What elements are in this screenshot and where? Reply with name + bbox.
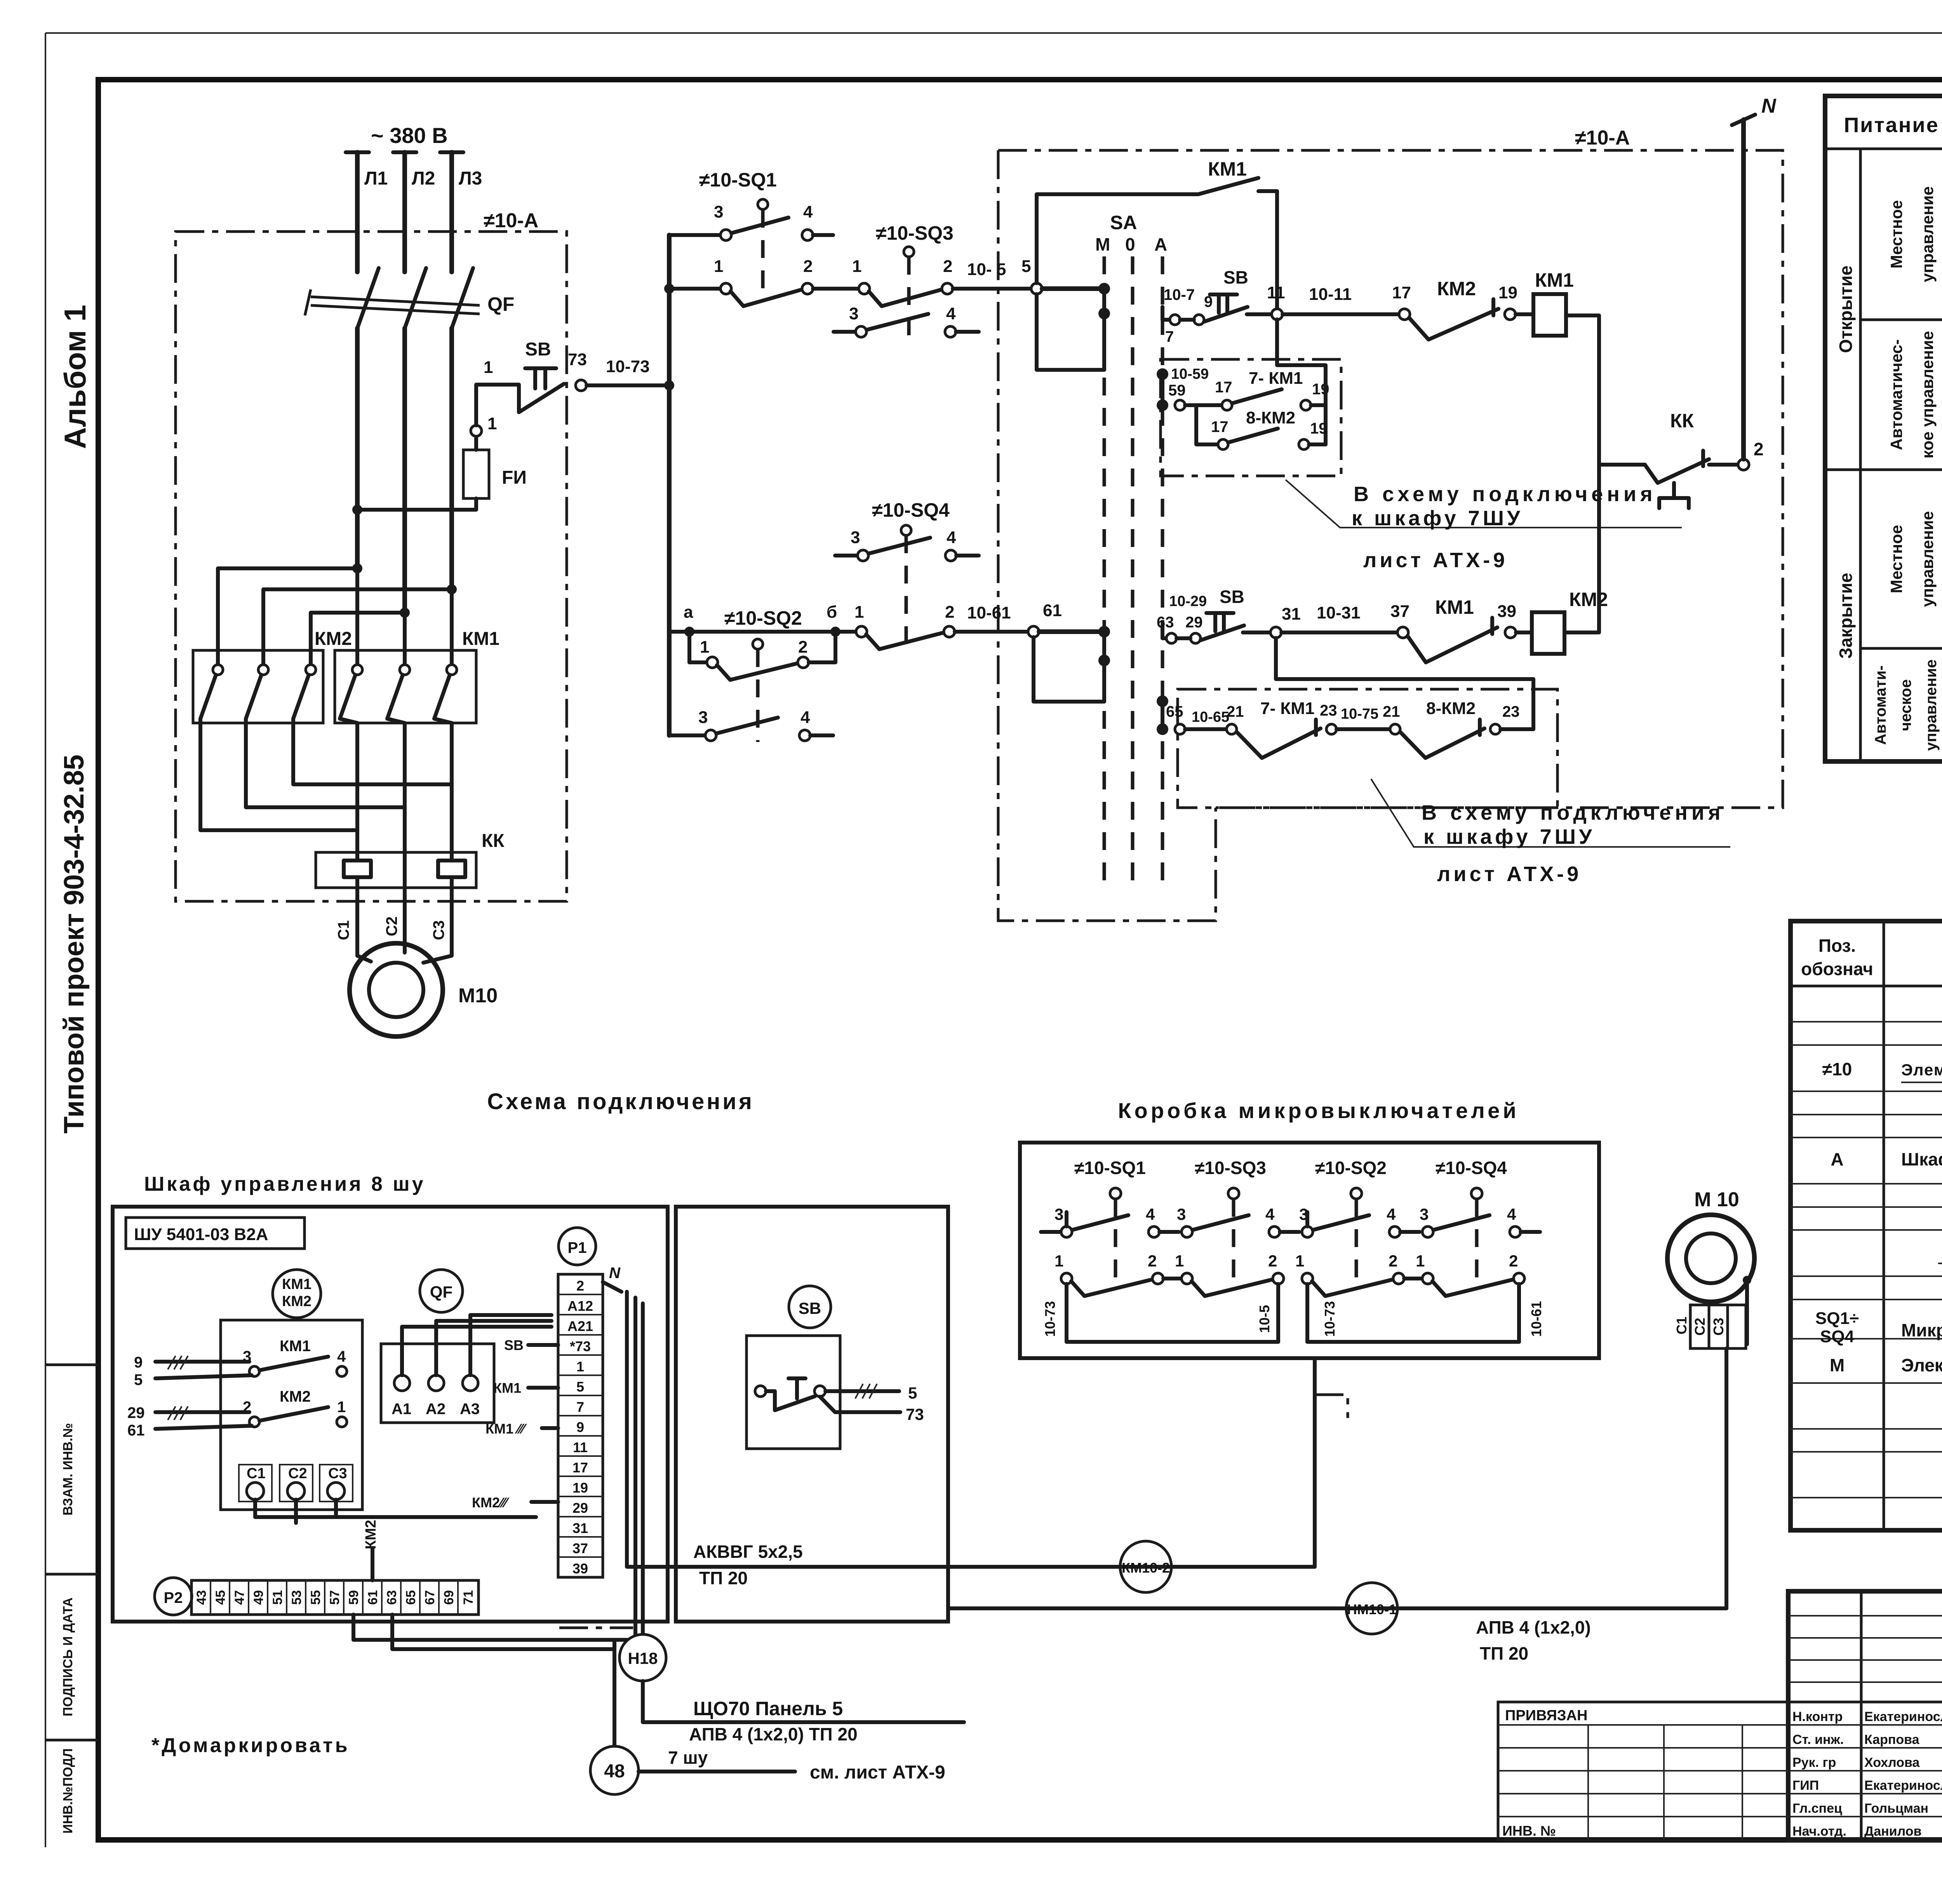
svg-text:SB: SB — [525, 339, 551, 360]
node 11 — [1272, 309, 1282, 320]
SQ3 stub row 3-4 — [834, 330, 856, 334]
wire to node 31 — [1243, 631, 1270, 634]
SQ4 stem dashed — [905, 535, 908, 645]
svg-text:55: 55 — [308, 1590, 323, 1605]
contact block box — [221, 1320, 362, 1510]
svg-text:к шкафу 7ШУ: к шкафу 7ШУ — [1423, 825, 1595, 848]
terminal 59 — [1175, 400, 1185, 410]
svg-text:59: 59 — [1168, 382, 1186, 399]
motor M10 inner — [369, 963, 423, 1017]
KK heater C — [438, 852, 465, 888]
terminal 65 — [1175, 724, 1185, 734]
svg-text:21: 21 — [1383, 703, 1400, 720]
SQ2 stem dashed — [756, 649, 760, 742]
left control bus — [667, 235, 672, 735]
contact 63 — [1166, 633, 1176, 643]
svg-text:10-5: 10-5 — [1256, 1305, 1272, 1333]
svg-text:10-29: 10-29 — [1169, 593, 1207, 610]
cable NM10-1 — [948, 1476, 1726, 1608]
SQ4 stub 3 — [835, 554, 858, 557]
SQ3 contact 3 — [856, 326, 867, 337]
P2 label circle — [155, 1578, 192, 1615]
svg-text:КМ1: КМ1 — [1435, 596, 1474, 618]
svg-text:3: 3 — [1177, 1205, 1186, 1223]
svg-text:17: 17 — [1215, 379, 1232, 396]
SQ1 blade 3-4 — [731, 218, 788, 233]
svg-text:QF: QF — [430, 1283, 452, 1301]
box frame — [1020, 1143, 1599, 1358]
svg-text:*73: *73 — [570, 1338, 591, 1354]
svg-text:≠10-SQ2: ≠10-SQ2 — [1315, 1158, 1387, 1178]
SB label circle — [789, 1286, 831, 1328]
48 line — [639, 1770, 795, 1773]
contact 39 — [1505, 627, 1516, 638]
SQ2 contact 2 — [798, 657, 809, 668]
circle H18 — [619, 1634, 666, 1681]
svg-text:17: 17 — [1392, 283, 1411, 302]
svg-text:Типовой проект 903-4-32.85: Типовой проект 903-4-32.85 — [59, 754, 90, 1134]
svg-text:5: 5 — [1021, 257, 1031, 276]
svg-text:4: 4 — [1387, 1205, 1396, 1223]
svg-text:31: 31 — [1282, 604, 1301, 624]
leader line to note — [1286, 480, 1682, 528]
svg-text:47: 47 — [232, 1590, 247, 1605]
contact 8-KM2 blade — [1228, 429, 1278, 442]
dashdot crossing mark — [559, 1627, 633, 1629]
svg-text:0: 0 — [1125, 234, 1135, 254]
svg-text:3: 3 — [698, 708, 708, 727]
svg-text:М 10: М 10 — [1694, 1188, 1739, 1211]
SQ2 stub row 3-4 — [669, 733, 705, 737]
svg-text:N: N — [609, 1265, 621, 1282]
svg-text:N: N — [1761, 95, 1777, 117]
svg-text:48: 48 — [604, 1761, 625, 1782]
svg-text:~ 380 B: ~ 380 B — [371, 123, 448, 148]
svg-text:НМ10-1: НМ10-1 — [1347, 1601, 1397, 1617]
svg-text:11: 11 — [573, 1439, 588, 1455]
svg-text:10- 5: 10- 5 — [967, 260, 1006, 279]
node dot 10-59 upper — [1157, 368, 1168, 380]
motor inner — [1686, 1233, 1736, 1283]
svg-text:10-65: 10-65 — [1192, 709, 1229, 725]
contact 9 — [1194, 315, 1204, 325]
selector loop below 61 — [1034, 637, 1104, 702]
svg-text:Местное: Местное — [1887, 200, 1905, 268]
P1 label circle — [559, 1228, 596, 1265]
svg-text:С3: С3 — [430, 920, 447, 940]
SQ4 blade 1-2 — [866, 633, 943, 649]
contactor KM2 box — [193, 650, 323, 723]
wire fuse to SB — [476, 385, 519, 425]
dots on M pole row2 — [1098, 626, 1110, 638]
SB wires out 5 / 73 — [820, 1391, 900, 1412]
wire coil KM2 to bus up — [1564, 465, 1599, 632]
svg-text:см. лист АТХ-9: см. лист АТХ-9 — [810, 1762, 945, 1783]
svg-text:10-11: 10-11 — [1309, 285, 1352, 304]
svg-text:63: 63 — [1157, 614, 1174, 631]
svg-text:61: 61 — [365, 1590, 380, 1605]
cabinet box left part — [113, 1207, 668, 1622]
svg-text:Ст. инж.: Ст. инж. — [1792, 1732, 1844, 1747]
breaker QF blade A — [357, 268, 379, 328]
jog wire A to KM2 — [218, 568, 357, 665]
terminal 73 — [576, 380, 586, 391]
svg-text:2: 2 — [1268, 1252, 1277, 1270]
cabinet box right part — [676, 1207, 948, 1622]
node dot C — [400, 608, 410, 618]
svg-text:Местное: Местное — [1887, 525, 1905, 593]
contact 7-KM1 NC blade — [1237, 719, 1321, 758]
svg-text:Нач.отд.: Нач.отд. — [1792, 1824, 1846, 1839]
svg-text:А3: А3 — [460, 1401, 480, 1418]
svg-text:61: 61 — [1043, 601, 1062, 620]
QF feeders to P1 — [402, 1315, 552, 1375]
svg-text:1: 1 — [852, 257, 861, 276]
KM2 pole 2 — [258, 665, 268, 675]
SQ1 blade 1-2 — [731, 290, 801, 306]
svg-text:лист АТХ-9: лист АТХ-9 — [1363, 549, 1508, 572]
svg-text:FИ: FИ — [502, 467, 527, 488]
svg-text:17: 17 — [573, 1460, 588, 1475]
neutral N line — [1741, 120, 1746, 459]
node dot 59 — [1157, 399, 1168, 411]
phase wire B mid — [402, 328, 407, 613]
svg-text:Н.контр: Н.контр — [1792, 1709, 1843, 1724]
svg-text:19: 19 — [1310, 420, 1328, 437]
SB button symbol — [755, 1386, 766, 1397]
SQ1 pivot — [758, 199, 768, 209]
svg-text:73: 73 — [906, 1405, 924, 1423]
svg-text:19: 19 — [573, 1480, 588, 1496]
svg-text:КМ1: КМ1 — [462, 629, 499, 649]
SQ4 contact 3 — [858, 550, 868, 561]
svg-text:2: 2 — [1148, 1252, 1157, 1270]
svg-text:Екатеринославская: Екатеринославская — [1864, 1709, 1942, 1724]
SQ3 stub 4 — [956, 330, 979, 334]
contact 7 — [1170, 315, 1180, 325]
svg-text:С3: С3 — [328, 1465, 347, 1482]
svg-text:КМ1: КМ1 — [1208, 158, 1247, 180]
svg-text:ШУ 5401-03 В2А: ШУ 5401-03 В2А — [134, 1225, 268, 1244]
wire SQ1.2 to SQ3.1 — [813, 287, 859, 291]
node dot motor — [1743, 1276, 1751, 1284]
QF label circle — [420, 1270, 463, 1312]
svg-text:ИНВ.№ПОДЛ: ИНВ.№ПОДЛ — [61, 1748, 75, 1833]
svg-text:КМ1: КМ1 — [280, 1338, 311, 1355]
phase wire B through KK — [403, 852, 407, 888]
svg-text:SB: SB — [1220, 587, 1244, 607]
KM1 NC contact row2 — [1408, 618, 1497, 662]
node 31 — [1270, 627, 1281, 638]
svg-text:8-КМ2: 8-КМ2 — [1246, 408, 1295, 427]
svg-text:SQ1÷: SQ1÷ — [1815, 1309, 1859, 1328]
wire 23b to corner — [1500, 727, 1533, 731]
terminal 21 — [1227, 724, 1237, 734]
svg-text:≠10-SQ2: ≠10-SQ2 — [724, 607, 802, 629]
terminal 17 row2 — [1218, 439, 1228, 449]
svg-text:КМ2: КМ2 — [363, 1520, 379, 1549]
svg-text:В схему подключения: В схему подключения — [1354, 483, 1657, 506]
breaker QF blade B — [405, 268, 426, 328]
terminal 23 — [1326, 724, 1336, 734]
svg-text:Шкаф управления ШУ5402-03В2А: Шкаф управления ШУ5402-03В2А — [1901, 1149, 1942, 1169]
KM1 holding branch right leg — [1258, 191, 1277, 309]
svg-text:2: 2 — [1389, 1252, 1397, 1270]
svg-text:С2: С2 — [1692, 1318, 1708, 1336]
svg-text:КМ1 ⁄⁄⁄: КМ1 ⁄⁄⁄ — [486, 1421, 527, 1437]
svg-text:QF: QF — [487, 293, 514, 315]
wire node5 to SA — [1042, 286, 1104, 291]
wire 59 to 17 — [1185, 403, 1222, 407]
svg-text:Электродвигатель 4АА56В4У3: Электродвигатель 4АА56В4У3 — [1901, 1355, 1942, 1375]
SQ1 switch — [1110, 1188, 1121, 1199]
selector loop below node5 — [1037, 294, 1104, 370]
svg-text:управление: управление — [1918, 511, 1937, 607]
SQ2 stub 4 — [810, 733, 833, 737]
svg-text:А: А — [1154, 234, 1167, 254]
wire 10-5 — [953, 287, 1031, 291]
node dot row1 — [664, 284, 674, 294]
svg-text:53: 53 — [289, 1590, 304, 1605]
type label box — [126, 1218, 305, 1249]
svg-text:М: М — [1095, 234, 1110, 254]
motor leads — [357, 888, 452, 963]
svg-text:КМ10-2: КМ10-2 — [1122, 1560, 1170, 1576]
node 5 — [1031, 283, 1042, 294]
svg-text:С1: С1 — [335, 920, 352, 940]
svg-text:КМ2: КМ2 — [1569, 589, 1608, 610]
row1 wire bus to SQ1.1 — [669, 287, 720, 291]
SQ2 bypass left leg — [689, 632, 707, 662]
svg-text:2: 2 — [943, 257, 952, 276]
svg-text:Хохлова: Хохлова — [1864, 1755, 1920, 1770]
wire 10-31 — [1281, 631, 1397, 634]
svg-text:Л1: Л1 — [364, 168, 388, 189]
svg-text:≠10-SQ3: ≠10-SQ3 — [1195, 1158, 1266, 1178]
contact 7-KM1 blade — [1232, 389, 1282, 403]
P2 terminal strip — [191, 1580, 479, 1615]
SQ3 blade 1-2 — [869, 290, 941, 306]
svg-text:11: 11 — [1267, 283, 1285, 302]
SQ4 pivot — [901, 525, 911, 535]
dash-dot cabinet A boundary top/right/bottom — [998, 150, 1783, 921]
KM10-2 marker circle — [1120, 1541, 1171, 1592]
coil KM1 — [1533, 294, 1566, 336]
SQ4 contact 4 — [945, 550, 956, 561]
supply tick L3 — [440, 150, 463, 154]
svg-text:Шкаф управления 8 шу: Шкаф управления 8 шу — [144, 1173, 426, 1195]
chain B bottom bus — [1307, 1340, 1519, 1344]
node 61 — [1028, 626, 1039, 637]
svg-text:8-КМ2: 8-КМ2 — [1426, 699, 1476, 718]
svg-text:37: 37 — [573, 1540, 588, 1556]
svg-text:4: 4 — [1146, 1205, 1155, 1223]
wire 10-75 — [1336, 727, 1390, 731]
wire 19 right — [1311, 403, 1326, 407]
svg-text:1: 1 — [1416, 1252, 1425, 1270]
svg-text:АПВ 4 (1х2,0) ТП 20: АПВ 4 (1х2,0) ТП 20 — [689, 1724, 858, 1744]
svg-text:23: 23 — [1320, 702, 1337, 719]
breaker QF tie bar — [305, 289, 480, 315]
svg-text:1: 1 — [714, 257, 723, 276]
svg-text:29: 29 — [127, 1404, 145, 1421]
svg-text:≠10-SQ1: ≠10-SQ1 — [699, 169, 777, 191]
node dot fuse tap — [352, 505, 362, 515]
SQ4 blade 3-4 — [868, 538, 930, 554]
svg-text:10-75: 10-75 — [1341, 706, 1378, 722]
node dot B — [447, 584, 457, 594]
svg-text:Н18: Н18 — [628, 1649, 658, 1667]
wire 19 row2 right — [1309, 442, 1326, 446]
SQ3 contact 1 — [859, 283, 870, 294]
button SB blade — [519, 384, 564, 412]
svg-text:7: 7 — [576, 1399, 584, 1415]
wire 48 feed vertical — [633, 1298, 637, 1640]
SQ1 stub 4 — [813, 233, 833, 237]
svg-text:Гольцман: Гольцман — [1864, 1801, 1928, 1816]
svg-text:4: 4 — [337, 1348, 346, 1365]
tap A pole row2 — [1162, 625, 1166, 638]
phase wire A mid — [355, 328, 360, 568]
motor drop to cable — [1724, 1348, 1728, 1608]
svg-text:КМ2: КМ2 — [1437, 278, 1476, 300]
KM2 NC contact row1 — [1409, 299, 1498, 340]
svg-text:Карпова: Карпова — [1864, 1732, 1920, 1747]
svg-text:Р1: Р1 — [568, 1239, 587, 1256]
button SB blade row2 — [1201, 625, 1244, 640]
dashdot stub below box — [1315, 1395, 1348, 1418]
svg-text:4: 4 — [1507, 1205, 1516, 1223]
phase wire C upper — [449, 152, 454, 272]
svg-text:Гл.спец: Гл.спец — [1792, 1801, 1842, 1816]
svg-text:3: 3 — [714, 202, 723, 221]
svg-text:Питание: Питание — [1844, 113, 1939, 137]
QF box — [381, 1344, 494, 1423]
KM1 pole 2 — [400, 665, 410, 675]
SQ3 stem dashed — [907, 257, 911, 344]
wire to KM2 coil — [1516, 631, 1532, 634]
svg-text:2: 2 — [803, 257, 813, 276]
svg-text:Рук. гр: Рук. гр — [1792, 1755, 1836, 1770]
svg-text:С2: С2 — [383, 916, 400, 936]
svg-text:69: 69 — [442, 1590, 456, 1605]
svg-text:≠10-SQ4: ≠10-SQ4 — [872, 499, 950, 521]
svg-text:10-61: 10-61 — [967, 603, 1011, 622]
svg-text:1: 1 — [487, 414, 497, 433]
SQ3 switch — [1228, 1188, 1239, 1199]
contact 17 — [1399, 309, 1410, 320]
svg-text:управление: управление — [1918, 186, 1937, 282]
SQ3 right drop 10-5 — [1276, 1284, 1280, 1342]
svg-text:а: а — [684, 603, 693, 622]
SQ1 contact 3 — [720, 230, 731, 240]
crossover wire KM2 pole1 — [200, 719, 357, 830]
svg-text:Данилов: Данилов — [1864, 1824, 1921, 1839]
svg-text:к шкафу 7ШУ: к шкафу 7ШУ — [1352, 507, 1523, 530]
selector SA dashed pole O — [1131, 256, 1135, 890]
svg-text:А12: А12 — [567, 1298, 593, 1314]
svg-text:1: 1 — [576, 1359, 584, 1374]
svg-text:39: 39 — [1497, 602, 1516, 621]
svg-text:4: 4 — [803, 202, 813, 221]
SQ2 switch — [1351, 1188, 1362, 1199]
KM1 holding blade — [1198, 178, 1258, 194]
svg-text:10-73: 10-73 — [1042, 1301, 1058, 1337]
SQ2 left drop 10-73 — [1305, 1212, 1309, 1342]
SQ3 contact 2 — [942, 283, 953, 294]
vertical to H18 — [641, 1303, 645, 1634]
SQ1 left drop 10-73 — [1065, 1212, 1068, 1342]
svg-text:Элементы управления электродви: Элементы управления электродвигателем М1… — [1901, 1061, 1942, 1079]
svg-text:С1: С1 — [1674, 1317, 1690, 1334]
svg-text:23: 23 — [1502, 703, 1520, 720]
svg-text:≠10-A: ≠10-A — [484, 209, 538, 232]
svg-text:10-59: 10-59 — [1171, 366, 1209, 382]
svg-text:А1: А1 — [392, 1401, 411, 1418]
svg-text:ПРИВЯЗАН: ПРИВЯЗАН — [1505, 1707, 1587, 1724]
wire coil to down bus — [1566, 315, 1599, 465]
KM1 pole 3 — [447, 665, 457, 675]
wire node61 to SA — [1039, 629, 1104, 634]
wire to node 11 — [1247, 312, 1272, 316]
KM1 holding branch left leg — [1037, 194, 1198, 283]
terminal 19 — [1301, 400, 1311, 410]
SQ2 pivot — [753, 639, 763, 649]
KM2 pole 1 — [213, 665, 223, 675]
node 2 — [1738, 459, 1749, 470]
NM10-1 marker circle — [1346, 1583, 1397, 1634]
svg-text:9: 9 — [576, 1419, 584, 1435]
jog wire B to KM2 — [263, 589, 452, 665]
svg-text:73: 73 — [568, 350, 587, 369]
svg-text:≠10-SQ4: ≠10-SQ4 — [1436, 1158, 1507, 1178]
button SB head — [525, 368, 556, 388]
crossover wire KM2 pole2 — [246, 719, 405, 807]
svg-text:ГИП: ГИП — [1792, 1778, 1819, 1793]
svg-text:10-61: 10-61 — [1528, 1301, 1544, 1337]
svg-text:39: 39 — [573, 1561, 588, 1577]
terminal 19 row2 — [1299, 439, 1309, 449]
svg-text:б: б — [827, 603, 837, 622]
drop from box to cable — [1313, 1358, 1317, 1567]
phase wire B to KK — [403, 723, 407, 852]
phase wire A to KK — [355, 723, 359, 852]
svg-text:43: 43 — [194, 1590, 209, 1605]
SQ4 contact 1 on main — [856, 626, 867, 637]
row2 auto subbranch: link from node31 — [1276, 638, 1533, 729]
SQ2 blade 1-2 — [717, 664, 797, 680]
subbranch feeders — [1277, 319, 1326, 444]
svg-text:2: 2 — [1509, 1252, 1518, 1270]
fuse FU body — [463, 450, 489, 498]
H18 drop and line — [643, 1681, 964, 1722]
svg-text:3: 3 — [1055, 1205, 1063, 1223]
svg-text:1: 1 — [484, 358, 493, 377]
motor terminal box — [1690, 1305, 1746, 1348]
svg-text:1: 1 — [1295, 1252, 1304, 1270]
button SB head row2 — [1206, 613, 1234, 631]
svg-text:SB: SB — [1223, 267, 1248, 287]
svg-text:М: М — [1830, 1355, 1845, 1375]
SQ2 contact 3 — [705, 730, 716, 741]
svg-text:Поз.: Поз. — [1818, 935, 1856, 956]
SQ1 contact 1 — [720, 283, 731, 294]
svg-text:7- КМ1: 7- КМ1 — [1249, 369, 1303, 388]
svg-text:ТП 20: ТП 20 — [1480, 1643, 1528, 1664]
internal wiring from C terminals to P2 area — [255, 1500, 536, 1523]
crossover wire KM2 pole3 — [293, 719, 452, 784]
svg-text:61: 61 — [127, 1422, 145, 1439]
